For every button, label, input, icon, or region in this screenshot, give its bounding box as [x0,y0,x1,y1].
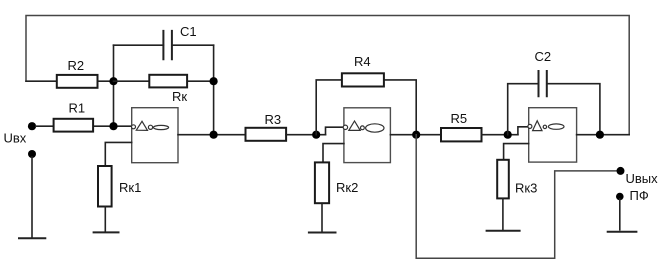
wire Rk3 to ground [502,198,504,229]
node R3-R4 input junction [312,131,320,139]
resistor Rk [114,75,214,88]
svg-text:Rк3: Rк3 [515,181,537,196]
op-amp A1 [132,108,179,163]
wire top feedback loop [26,16,629,135]
svg-text:Rк2: Rк2 [336,180,358,195]
label Rk2 [336,180,358,195]
node op1 output junction [210,131,218,139]
label Uvx [4,131,27,146]
node R2-C1 junction [109,77,117,85]
wire step to op3 inverting input [518,127,528,135]
wire op1 output [178,134,246,136]
svg-text:R2: R2 [68,58,85,73]
resistor R4 [316,73,416,134]
label Rk3 [515,181,537,196]
wire op3 output [577,134,630,136]
wire op1 feedback right column [213,45,215,135]
label R4 [354,54,371,69]
wire Rk2 to ground [321,203,323,231]
wire output tap from op2 to Uvyh terminal [416,135,617,259]
label R3 [265,112,282,127]
wire step to op2 inverting input [326,127,343,135]
op-amp A2 [343,108,390,163]
label Rk1 [119,180,141,195]
capacitor C2 [508,71,600,135]
terminal Uvx ground side [28,150,36,238]
wire Rk1 to ground [104,207,106,232]
terminal PF ground side [616,193,624,230]
op-amp A3 [528,108,577,162]
svg-text:Rк1: Rк1 [119,180,141,195]
svg-text:C2: C2 [535,49,552,64]
resistor Rk2 [315,162,329,203]
svg-text:Uвх: Uвх [4,131,27,146]
svg-text:R5: R5 [451,111,468,126]
wire op2 noninverting input to Rk2 [323,144,344,163]
resistor R2 [26,75,114,88]
node op2 output junction [412,131,420,139]
label Rk [172,89,187,104]
resistor Rk3 [497,160,509,199]
node R5-C2 input junction [504,131,512,139]
label R1 [69,100,86,115]
capacitor C1 [114,31,214,59]
resistor R1 [36,119,132,132]
node op3 output junction [596,131,604,139]
svg-text:Uвых: Uвых [626,171,659,186]
ground Rk1 [94,231,119,233]
ground input terminal [19,237,45,239]
svg-text:Rк: Rк [172,89,187,104]
ground Rk2 [309,232,336,234]
label R5 [451,111,468,126]
svg-text:C1: C1 [180,24,197,39]
wire node-B vertical (C1/R2/R1 junction column) [113,45,115,126]
label PF [630,188,649,203]
wire op2 output [390,134,441,136]
svg-text:ПФ: ПФ [630,188,649,203]
terminal Uvx input [28,122,36,130]
ground PF terminal [608,231,637,233]
svg-text:R3: R3 [265,112,282,127]
node Rk-C1 right junction [210,77,218,85]
label Uvyh [626,171,659,186]
svg-text:R1: R1 [69,100,86,115]
label C1 [180,24,197,39]
terminal Uvyh [617,167,625,175]
resistor Rk1 [98,166,112,207]
resistor R3 [246,128,326,141]
wire op3 noninverting input to Rk3 [504,144,529,160]
wire op1 noninverting input to Rk1 [105,142,131,166]
label C2 [535,49,552,64]
label R2 [68,58,85,73]
ground Rk3 [487,230,520,232]
svg-text:R4: R4 [354,54,371,69]
resistor R5 [441,128,518,141]
node R1-opamp input junction [109,122,117,130]
